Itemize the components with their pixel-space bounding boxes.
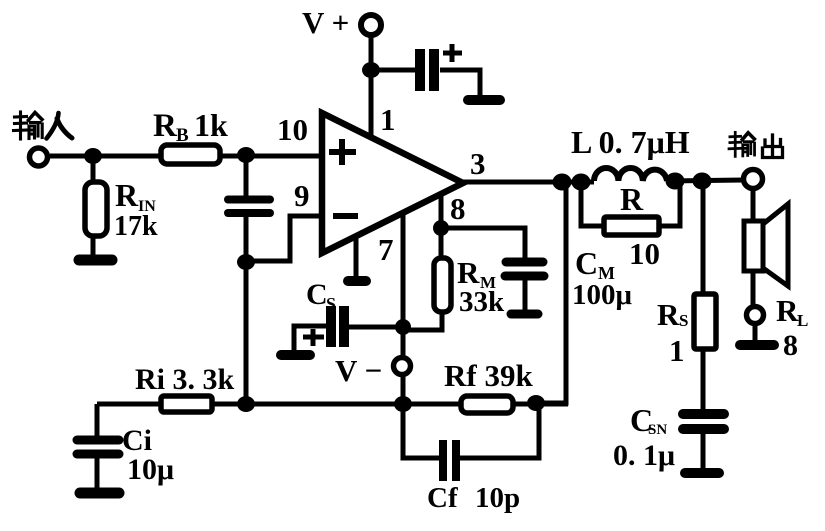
svg-text:R: R xyxy=(657,297,680,332)
svg-text:3: 3 xyxy=(470,146,486,181)
svg-text:V +: V + xyxy=(302,5,349,40)
svg-text:R: R xyxy=(776,293,799,328)
svg-text:17k: 17k xyxy=(114,211,158,242)
svg-text:S: S xyxy=(679,311,688,330)
svg-text:10μ: 10μ xyxy=(127,453,174,486)
svg-text:1: 1 xyxy=(669,333,685,368)
svg-text:10: 10 xyxy=(277,112,308,147)
svg-text:1: 1 xyxy=(380,102,396,137)
svg-text:R: R xyxy=(457,255,480,290)
svg-text:L: L xyxy=(797,311,808,330)
svg-text:B: B xyxy=(176,125,189,146)
svg-text:8: 8 xyxy=(450,191,466,226)
svg-text:33k: 33k xyxy=(459,286,505,318)
svg-text:Cf 10p: Cf 10p xyxy=(427,482,520,514)
svg-text:7: 7 xyxy=(378,232,394,267)
svg-text:100μ: 100μ xyxy=(572,279,633,311)
svg-text:R: R xyxy=(153,108,178,144)
svg-text:Ri 3. 3k: Ri 3. 3k xyxy=(135,363,235,396)
svg-text:S: S xyxy=(326,294,336,314)
svg-text:0. 1μ: 0. 1μ xyxy=(613,439,675,472)
svg-text:V −: V − xyxy=(335,353,382,388)
svg-text:L 0. 7μH: L 0. 7μH xyxy=(571,124,690,160)
svg-text:SN: SN xyxy=(648,422,667,438)
svg-text:C: C xyxy=(306,278,328,311)
svg-text:9: 9 xyxy=(294,178,310,213)
svg-text:1k: 1k xyxy=(194,107,228,143)
svg-text:8: 8 xyxy=(783,329,798,362)
svg-text:10: 10 xyxy=(629,236,660,271)
svg-text:Rf 39k: Rf 39k xyxy=(444,358,533,393)
svg-text:R: R xyxy=(115,177,139,213)
svg-text:R: R xyxy=(620,181,644,217)
svg-text:C: C xyxy=(575,245,598,281)
